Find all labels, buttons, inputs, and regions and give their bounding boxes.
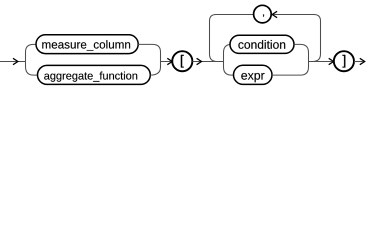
wire: rail after [ to condition/expr split	[192, 61, 223, 63]
wire: exit rail	[354, 61, 365, 63]
wire: entry rail	[0, 61, 26, 63]
arrowhead: before ]	[329, 58, 334, 64]
box: aggregate_function	[38, 65, 151, 84]
terminal: comma circle	[254, 5, 272, 23]
box: condition	[230, 35, 294, 53]
arrowhead: entry	[13, 58, 18, 64]
arrowhead: into comma circle pointing left	[272, 11, 277, 17]
arrowhead: exit	[360, 58, 365, 64]
box: measure_column	[36, 35, 138, 54]
wire: right merge vertical for condition/expr	[272, 44, 309, 75]
terminal: ] circle	[334, 51, 354, 71]
terminal: [ circle	[172, 51, 192, 71]
arrowhead: after [	[197, 58, 202, 64]
wire: left split vertical and curves to both boxes	[26, 44, 38, 75]
wire: left merge vertical joining boxes to rail	[138, 44, 172, 75]
box: expr	[234, 65, 273, 84]
wire: loop top line left segment	[216, 14, 254, 16]
wire: loop left side down-curve	[210, 15, 218, 62]
wire: split vertical for condition/expr	[224, 44, 234, 75]
wire: rail from merge to ]	[309, 61, 334, 63]
arrowhead: before [	[167, 58, 172, 64]
wire: loop right side up-curve	[313, 15, 321, 62]
wire: loop top line right segment	[271, 14, 314, 16]
